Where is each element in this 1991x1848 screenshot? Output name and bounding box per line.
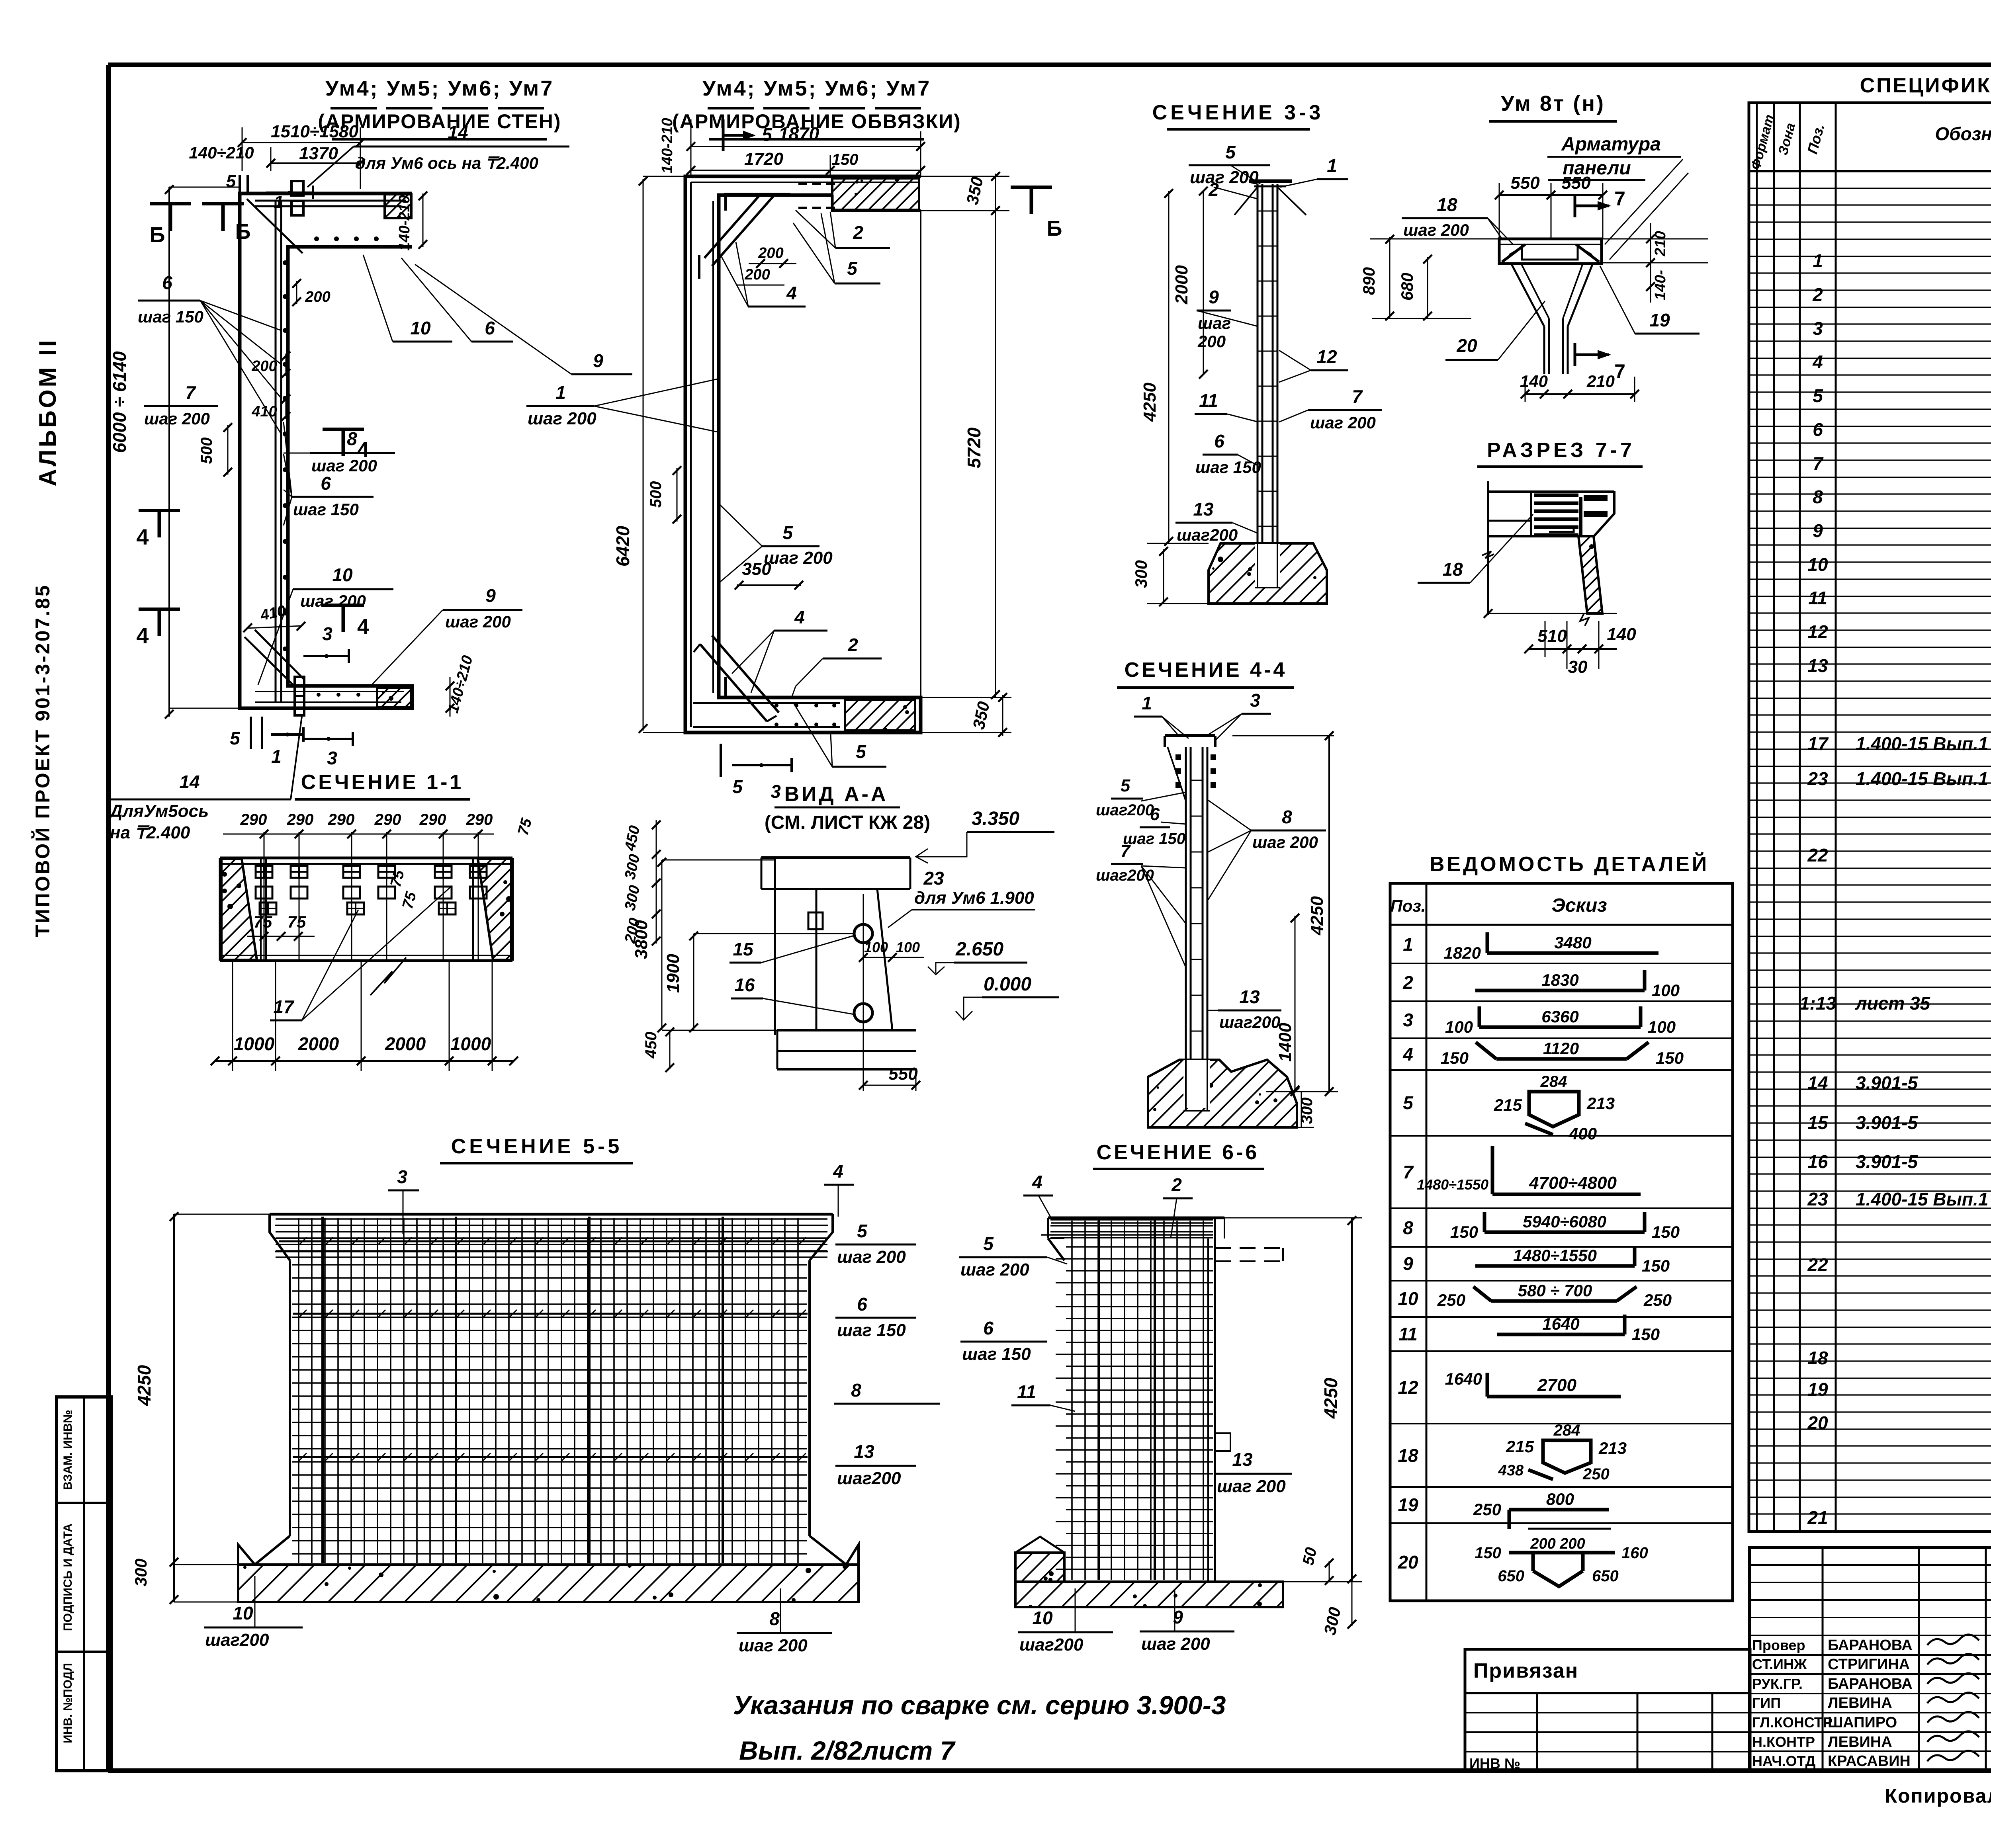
svg-text:для Ум6 ось на ₸2.400: для Ум6 ось на ₸2.400 bbox=[355, 154, 538, 172]
svg-text:6: 6 bbox=[485, 318, 495, 338]
svg-text:шаг 200: шаг 200 bbox=[1190, 168, 1259, 187]
svg-text:6: 6 bbox=[1214, 431, 1224, 451]
svg-text:150: 150 bbox=[1656, 1049, 1684, 1067]
svg-text:шаг 200: шаг 200 bbox=[739, 1636, 808, 1655]
svg-text:шаг 150: шаг 150 bbox=[962, 1344, 1031, 1364]
svg-text:7: 7 bbox=[1403, 1162, 1414, 1182]
svg-text:5: 5 bbox=[1813, 385, 1823, 406]
svg-text:9: 9 bbox=[485, 585, 496, 606]
svg-text:11: 11 bbox=[1017, 1381, 1036, 1402]
svg-text:ЛЕВИНА: ЛЕВИНА bbox=[1828, 1695, 1892, 1711]
svg-text:Ум4; Ум5; Ум6; Ум7: Ум4; Ум5; Ум6; Ум7 bbox=[325, 76, 554, 100]
svg-text:650: 650 bbox=[1498, 1567, 1524, 1585]
svg-text:шаг200: шаг200 bbox=[837, 1469, 901, 1488]
svg-text:9: 9 bbox=[1813, 520, 1823, 541]
svg-text:13: 13 bbox=[1239, 987, 1260, 1007]
svg-text:5: 5 bbox=[762, 124, 773, 145]
svg-text:13: 13 bbox=[1232, 1449, 1253, 1470]
svg-text:4250: 4250 bbox=[1140, 383, 1160, 422]
svg-text:ВЕДОМОСТЬ ДЕТАЛЕЙ: ВЕДОМОСТЬ ДЕТАЛЕЙ bbox=[1430, 852, 1709, 876]
svg-text:3: 3 bbox=[1813, 318, 1823, 339]
svg-text:450: 450 bbox=[642, 1032, 660, 1059]
svg-text:АЛЬБОМ II: АЛЬБОМ II bbox=[34, 338, 61, 486]
svg-text:140÷210: 140÷210 bbox=[189, 143, 254, 162]
svg-text:СЕЧЕНИЕ 6-6: СЕЧЕНИЕ 6-6 bbox=[1097, 1141, 1260, 1164]
svg-text:10: 10 bbox=[1398, 1288, 1418, 1309]
svg-text:ИНВ. №ПОДЛ: ИНВ. №ПОДЛ bbox=[61, 1663, 74, 1743]
svg-text:Н.КОНТР: Н.КОНТР bbox=[1752, 1734, 1815, 1750]
svg-text:290: 290 bbox=[374, 811, 401, 828]
svg-text:30: 30 bbox=[1568, 657, 1588, 677]
svg-text:100: 100 bbox=[896, 939, 920, 955]
svg-text:СТРИГИНА: СТРИГИНА bbox=[1828, 1656, 1910, 1673]
svg-text:8: 8 bbox=[1813, 486, 1823, 507]
svg-text:4: 4 bbox=[833, 1161, 843, 1182]
svg-text:3: 3 bbox=[771, 781, 781, 802]
svg-text:12: 12 bbox=[1807, 621, 1828, 642]
svg-text:140: 140 bbox=[1607, 625, 1636, 644]
svg-text:8: 8 bbox=[769, 1608, 780, 1629]
svg-text:шаг 200: шаг 200 bbox=[311, 456, 377, 475]
svg-text:18: 18 bbox=[1442, 559, 1463, 580]
svg-text:20: 20 bbox=[1807, 1412, 1828, 1433]
svg-text:150: 150 bbox=[1450, 1223, 1478, 1241]
svg-text:1510÷1580: 1510÷1580 bbox=[271, 122, 358, 141]
svg-text:15: 15 bbox=[1807, 1112, 1829, 1133]
svg-text:4: 4 bbox=[1402, 1044, 1413, 1065]
svg-text:2000: 2000 bbox=[298, 1033, 339, 1054]
svg-text:3.901-5: 3.901-5 bbox=[1856, 1072, 1918, 1093]
svg-text:ГЛ.КОНСТР: ГЛ.КОНСТР bbox=[1752, 1714, 1833, 1731]
svg-text:4700÷4800: 4700÷4800 bbox=[1529, 1173, 1617, 1193]
svg-text:шаг200: шаг200 bbox=[1219, 1013, 1280, 1031]
svg-text:75: 75 bbox=[288, 912, 306, 931]
svg-text:3480: 3480 bbox=[1554, 933, 1591, 952]
svg-text:3.901-5: 3.901-5 bbox=[1856, 1112, 1918, 1133]
svg-text:12: 12 bbox=[1398, 1377, 1418, 1398]
svg-text:СТ.ИНЖ: СТ.ИНЖ bbox=[1752, 1656, 1807, 1672]
svg-text:1:13: 1:13 bbox=[1799, 993, 1836, 1014]
svg-text:(СМ. ЛИСТ КЖ 28): (СМ. ЛИСТ КЖ 28) bbox=[765, 812, 930, 833]
svg-text:10: 10 bbox=[1807, 554, 1828, 575]
svg-text:290: 290 bbox=[419, 811, 446, 828]
svg-text:22: 22 bbox=[1807, 1254, 1828, 1275]
svg-text:100: 100 bbox=[1648, 1018, 1676, 1036]
svg-text:9: 9 bbox=[1403, 1253, 1413, 1274]
svg-text:1.400-15 Вып.1: 1.400-15 Вып.1 bbox=[1856, 1189, 1988, 1209]
svg-text:РАЗРЕЗ 7-7: РАЗРЕЗ 7-7 bbox=[1487, 439, 1635, 462]
svg-text:9: 9 bbox=[1209, 287, 1219, 307]
svg-text:8: 8 bbox=[851, 1380, 861, 1401]
svg-text:0.000: 0.000 bbox=[984, 974, 1031, 995]
svg-text:на ₸2.400: на ₸2.400 bbox=[110, 823, 190, 842]
svg-text:1: 1 bbox=[555, 382, 566, 403]
svg-text:РУК.ГР.: РУК.ГР. bbox=[1752, 1676, 1803, 1692]
svg-text:4250: 4250 bbox=[1307, 896, 1327, 936]
svg-text:шаг 200: шаг 200 bbox=[1403, 221, 1469, 239]
svg-text:ТИПОВОЙ ПРОЕКТ 901-3-207.85: ТИПОВОЙ ПРОЕКТ 901-3-207.85 bbox=[31, 584, 54, 937]
svg-text:4: 4 bbox=[136, 524, 149, 549]
svg-text:1820: 1820 bbox=[1444, 944, 1481, 962]
svg-text:7: 7 bbox=[185, 382, 196, 403]
svg-text:Б: Б bbox=[235, 220, 251, 244]
svg-text:400: 400 bbox=[1569, 1124, 1597, 1143]
svg-text:250: 250 bbox=[1437, 1291, 1465, 1309]
svg-text:350: 350 bbox=[742, 559, 771, 579]
svg-text:Указания по сварке см. сери: Указания по сварке см. серию 3.900-3 bbox=[733, 1690, 1226, 1720]
svg-text:шаг 200: шаг 200 bbox=[764, 548, 833, 568]
svg-text:284: 284 bbox=[1540, 1073, 1567, 1090]
svg-text:шаг 200: шаг 200 bbox=[1217, 1477, 1286, 1496]
svg-text:ШАПИРО: ШАПИРО bbox=[1828, 1714, 1897, 1731]
svg-text:8: 8 bbox=[1403, 1217, 1413, 1238]
svg-text:550: 550 bbox=[1510, 173, 1540, 193]
svg-text:шаг 150: шаг 150 bbox=[1195, 458, 1261, 477]
svg-text:210: 210 bbox=[1586, 372, 1615, 391]
svg-text:2: 2 bbox=[847, 635, 858, 655]
svg-text:СЕЧЕНИЕ 4-4: СЕЧЕНИЕ 4-4 bbox=[1125, 658, 1287, 682]
svg-text:22: 22 bbox=[1807, 845, 1828, 865]
svg-text:100: 100 bbox=[864, 939, 888, 955]
svg-text:215: 215 bbox=[1494, 1096, 1522, 1114]
svg-text:5: 5 bbox=[782, 522, 793, 543]
svg-text:ДляУм5ось: ДляУм5ось bbox=[108, 801, 209, 821]
svg-text:11: 11 bbox=[1808, 588, 1827, 608]
svg-text:2: 2 bbox=[1812, 284, 1823, 305]
svg-text:Провер: Провер bbox=[1752, 1637, 1805, 1653]
svg-text:150: 150 bbox=[1652, 1223, 1680, 1241]
svg-text:шаг: шаг bbox=[1198, 314, 1231, 332]
svg-text:СЕЧЕНИЕ 1-1: СЕЧЕНИЕ 1-1 bbox=[301, 771, 464, 794]
svg-text:290: 290 bbox=[287, 811, 314, 828]
svg-text:213: 213 bbox=[1586, 1094, 1615, 1113]
svg-text:510: 510 bbox=[1537, 626, 1567, 646]
svg-text:4250: 4250 bbox=[1320, 1377, 1341, 1419]
svg-text:200: 200 bbox=[744, 266, 770, 283]
svg-text:18: 18 bbox=[1398, 1445, 1418, 1466]
svg-text:18: 18 bbox=[1437, 194, 1457, 215]
svg-text:15: 15 bbox=[733, 939, 754, 959]
svg-text:ИНВ №: ИНВ № bbox=[1469, 1755, 1520, 1772]
svg-text:5: 5 bbox=[847, 258, 858, 279]
svg-text:БАРАНОВА: БАРАНОВА bbox=[1828, 1676, 1913, 1692]
svg-text:680: 680 bbox=[1398, 273, 1416, 301]
svg-text:1870: 1870 bbox=[778, 123, 819, 144]
svg-text:Поз.: Поз. bbox=[1391, 897, 1426, 915]
svg-text:140: 140 bbox=[1520, 372, 1548, 391]
svg-text:6420: 6420 bbox=[612, 525, 633, 567]
svg-text:Копировал: Коршунова: Копировал: Коршунова bbox=[1885, 1785, 1991, 1807]
svg-text:18: 18 bbox=[1807, 1348, 1828, 1368]
svg-text:5: 5 bbox=[856, 741, 866, 762]
svg-text:1720: 1720 bbox=[744, 149, 783, 169]
svg-text:шаг 150: шаг 150 bbox=[837, 1321, 906, 1340]
svg-text:150: 150 bbox=[1632, 1325, 1660, 1344]
svg-text:150: 150 bbox=[1475, 1544, 1501, 1562]
svg-text:14: 14 bbox=[448, 122, 468, 143]
svg-text:140-210: 140-210 bbox=[396, 195, 413, 250]
svg-text:3: 3 bbox=[327, 748, 337, 768]
svg-text:шаг 200: шаг 200 bbox=[960, 1260, 1029, 1280]
svg-text:250: 250 bbox=[1643, 1291, 1672, 1309]
svg-text:5: 5 bbox=[1225, 142, 1236, 162]
svg-text:13: 13 bbox=[1193, 499, 1214, 520]
svg-text:шаг 200: шаг 200 bbox=[1310, 413, 1376, 432]
svg-text:10: 10 bbox=[233, 1603, 253, 1623]
svg-text:2: 2 bbox=[1402, 972, 1413, 993]
svg-text:2700: 2700 bbox=[1537, 1375, 1576, 1395]
svg-text:20: 20 bbox=[1397, 1552, 1418, 1573]
svg-text:5: 5 bbox=[1403, 1092, 1414, 1113]
svg-text:5: 5 bbox=[857, 1221, 868, 1241]
svg-text:8: 8 bbox=[1282, 807, 1292, 827]
svg-text:шаг 150: шаг 150 bbox=[293, 500, 359, 519]
svg-text:210: 210 bbox=[1652, 231, 1669, 256]
svg-text:6: 6 bbox=[1813, 419, 1823, 440]
svg-text:1: 1 bbox=[271, 746, 282, 767]
svg-text:17: 17 bbox=[273, 996, 295, 1017]
svg-text:1.400-15 Вып.1: 1.400-15 Вып.1 bbox=[1856, 768, 1988, 789]
svg-text:160: 160 bbox=[1621, 1544, 1648, 1562]
svg-text:23: 23 bbox=[1807, 768, 1828, 789]
svg-text:140-210: 140-210 bbox=[659, 118, 676, 173]
svg-text:5: 5 bbox=[226, 172, 236, 191]
svg-text:150: 150 bbox=[1441, 1049, 1469, 1067]
svg-text:300: 300 bbox=[1132, 560, 1150, 588]
svg-text:2: 2 bbox=[1171, 1174, 1182, 1195]
svg-text:ПОДПИСЬ И ДАТА: ПОДПИСЬ И ДАТА bbox=[61, 1524, 74, 1631]
svg-text:100: 100 bbox=[1652, 981, 1680, 1000]
svg-text:4: 4 bbox=[357, 615, 369, 639]
svg-text:6: 6 bbox=[321, 473, 331, 494]
svg-text:Обозначение: Обозначение bbox=[1935, 123, 1991, 144]
svg-text:5: 5 bbox=[732, 776, 743, 797]
svg-text:3.350: 3.350 bbox=[972, 808, 1019, 829]
svg-text:1000: 1000 bbox=[234, 1033, 275, 1054]
svg-text:Привязан: Привязан bbox=[1473, 1659, 1578, 1682]
svg-text:НАЧ.ОТД: НАЧ.ОТД bbox=[1752, 1753, 1815, 1769]
svg-text:1: 1 bbox=[1142, 693, 1152, 713]
svg-text:Арматура: Арматура bbox=[1561, 134, 1661, 155]
svg-text:1.400-15 Вып.1: 1.400-15 Вып.1 bbox=[1856, 733, 1988, 754]
svg-text:8: 8 bbox=[347, 428, 357, 449]
svg-text:БАРАНОВА: БАРАНОВА bbox=[1828, 1637, 1913, 1654]
svg-text:215: 215 bbox=[1506, 1437, 1534, 1456]
svg-text:7: 7 bbox=[1614, 360, 1625, 383]
svg-text:шаг 200: шаг 200 bbox=[1252, 833, 1318, 852]
svg-text:19: 19 bbox=[1649, 310, 1670, 330]
svg-text:5: 5 bbox=[983, 1233, 994, 1254]
svg-text:17: 17 bbox=[1807, 733, 1829, 754]
svg-text:1480÷1550: 1480÷1550 bbox=[1513, 1246, 1597, 1265]
svg-text:4: 4 bbox=[1032, 1172, 1042, 1192]
svg-text:1900: 1900 bbox=[663, 954, 683, 993]
svg-text:ГИП: ГИП bbox=[1752, 1695, 1781, 1711]
svg-text:3: 3 bbox=[397, 1166, 407, 1187]
svg-text:лист 35: лист 35 bbox=[1855, 993, 1931, 1014]
svg-text:10: 10 bbox=[332, 565, 353, 585]
svg-text:6: 6 bbox=[162, 272, 172, 293]
svg-text:Эскиз: Эскиз bbox=[1551, 895, 1607, 916]
svg-text:4: 4 bbox=[786, 283, 797, 303]
svg-text:2000: 2000 bbox=[1172, 265, 1191, 305]
svg-text:Б: Б bbox=[1047, 217, 1062, 240]
svg-text:7: 7 bbox=[1813, 453, 1824, 474]
svg-text:1830: 1830 bbox=[1541, 971, 1578, 989]
svg-text:100: 100 bbox=[1445, 1018, 1473, 1036]
svg-text:11: 11 bbox=[1398, 1324, 1418, 1344]
svg-text:1: 1 bbox=[1403, 934, 1413, 955]
svg-text:6: 6 bbox=[1150, 805, 1160, 824]
svg-text:2: 2 bbox=[1208, 179, 1219, 200]
svg-text:14: 14 bbox=[179, 772, 199, 792]
svg-text:для Ум6 1.900: для Ум6 1.900 bbox=[914, 888, 1034, 908]
svg-text:1120: 1120 bbox=[1543, 1039, 1579, 1058]
svg-text:Ум4; Ум5; Ум6; Ум7: Ум4; Ум5; Ум6; Ум7 bbox=[702, 76, 931, 100]
svg-text:6000 ÷ 6140: 6000 ÷ 6140 bbox=[109, 351, 130, 453]
svg-text:шаг 150: шаг 150 bbox=[1123, 830, 1185, 848]
svg-text:3: 3 bbox=[1403, 1010, 1413, 1030]
svg-text:4: 4 bbox=[1812, 352, 1823, 372]
svg-text:1: 1 bbox=[274, 192, 284, 212]
svg-text:290: 290 bbox=[240, 811, 267, 828]
svg-text:284: 284 bbox=[1553, 1422, 1580, 1439]
svg-text:19: 19 bbox=[1398, 1494, 1418, 1515]
svg-text:4: 4 bbox=[794, 607, 805, 627]
svg-text:шаг 200: шаг 200 bbox=[528, 409, 597, 428]
svg-text:7: 7 bbox=[1352, 386, 1363, 407]
svg-text:шаг 200: шаг 200 bbox=[445, 612, 511, 631]
svg-text:5940÷6080: 5940÷6080 bbox=[1523, 1212, 1606, 1231]
svg-text:1000: 1000 bbox=[450, 1033, 491, 1054]
svg-text:шаг 200: шаг 200 bbox=[1141, 1634, 1210, 1654]
svg-text:2000: 2000 bbox=[385, 1033, 426, 1054]
svg-text:7: 7 bbox=[1121, 841, 1131, 861]
svg-text:23: 23 bbox=[1807, 1189, 1828, 1209]
svg-text:ВИД А-А: ВИД А-А bbox=[784, 783, 888, 806]
svg-text:200: 200 bbox=[1197, 332, 1226, 351]
svg-text:550: 550 bbox=[1561, 173, 1591, 193]
svg-text:6360: 6360 bbox=[1541, 1007, 1578, 1026]
svg-text:3.901-5: 3.901-5 bbox=[1856, 1151, 1918, 1172]
svg-text:шаг 200: шаг 200 bbox=[300, 592, 366, 610]
svg-text:13: 13 bbox=[1807, 655, 1828, 676]
svg-text:12: 12 bbox=[1316, 346, 1337, 367]
svg-text:Ум 8т (н): Ум 8т (н) bbox=[1501, 92, 1605, 115]
svg-text:1640: 1640 bbox=[1445, 1369, 1482, 1388]
svg-text:Б: Б bbox=[150, 223, 165, 247]
svg-text:4: 4 bbox=[136, 623, 149, 648]
svg-text:2: 2 bbox=[853, 222, 863, 243]
svg-text:200: 200 bbox=[305, 289, 330, 305]
svg-text:7: 7 bbox=[1614, 188, 1625, 210]
svg-text:21: 21 bbox=[1807, 1507, 1828, 1528]
svg-text:300: 300 bbox=[131, 1559, 150, 1586]
svg-text:290: 290 bbox=[466, 811, 493, 828]
svg-text:шаг200: шаг200 bbox=[1019, 1635, 1084, 1655]
svg-text:1: 1 bbox=[1327, 155, 1337, 176]
svg-text:1480÷1550: 1480÷1550 bbox=[1417, 1176, 1488, 1193]
svg-text:шаг 200: шаг 200 bbox=[837, 1247, 906, 1267]
svg-text:1: 1 bbox=[1813, 250, 1823, 271]
svg-text:СЕЧЕНИЕ 3-3: СЕЧЕНИЕ 3-3 bbox=[1152, 101, 1324, 124]
svg-text:13: 13 bbox=[854, 1441, 874, 1462]
svg-text:СЕЧЕНИЕ 5-5: СЕЧЕНИЕ 5-5 bbox=[451, 1135, 623, 1158]
svg-text:650: 650 bbox=[1592, 1567, 1619, 1585]
svg-text:11: 11 bbox=[1199, 390, 1218, 411]
svg-text:23: 23 bbox=[923, 868, 944, 889]
svg-text:14: 14 bbox=[1807, 1072, 1828, 1093]
svg-text:шаг200: шаг200 bbox=[205, 1630, 269, 1650]
svg-text:500: 500 bbox=[647, 481, 665, 508]
svg-text:250: 250 bbox=[1473, 1500, 1501, 1519]
svg-text:10: 10 bbox=[410, 318, 431, 338]
svg-text:1370: 1370 bbox=[299, 144, 338, 163]
svg-text:6: 6 bbox=[857, 1294, 867, 1315]
svg-text:200: 200 bbox=[251, 358, 277, 375]
svg-text:75: 75 bbox=[254, 912, 272, 931]
svg-text:СПЕЦИФИКАЦИЯ МОНОЛИТНЫХ УЧАСТК: СПЕЦИФИКАЦИЯ МОНОЛИТНЫХ УЧАСТКОВ Ум4÷Ум8… bbox=[1860, 74, 1991, 97]
svg-text:150: 150 bbox=[832, 151, 859, 168]
svg-text:4250: 4250 bbox=[134, 1365, 155, 1406]
svg-text:3: 3 bbox=[322, 623, 332, 644]
svg-text:890: 890 bbox=[1359, 267, 1378, 295]
svg-text:3800: 3800 bbox=[632, 920, 651, 959]
svg-text:шаг 200: шаг 200 bbox=[144, 409, 210, 428]
svg-text:50: 50 bbox=[1299, 1546, 1320, 1567]
svg-text:5: 5 bbox=[230, 728, 241, 748]
svg-text:140-: 140- bbox=[1652, 270, 1669, 300]
svg-text:16: 16 bbox=[1807, 1151, 1828, 1172]
svg-text:550: 550 bbox=[888, 1064, 918, 1084]
svg-text:290: 290 bbox=[328, 811, 355, 828]
svg-text:410: 410 bbox=[251, 403, 277, 420]
svg-text:200: 200 bbox=[758, 245, 783, 262]
svg-text:250: 250 bbox=[1582, 1465, 1610, 1483]
svg-text:ВЗАМ. ИНВ№: ВЗАМ. ИНВ№ bbox=[61, 1410, 74, 1490]
svg-text:2.650: 2.650 bbox=[955, 939, 1003, 960]
svg-text:500: 500 bbox=[198, 438, 215, 464]
svg-text:800: 800 bbox=[1546, 1490, 1574, 1508]
svg-text:6: 6 bbox=[983, 1318, 994, 1338]
svg-text:шаг200: шаг200 bbox=[1177, 525, 1238, 544]
svg-text:шаг200: шаг200 bbox=[1096, 801, 1154, 819]
svg-text:16: 16 bbox=[734, 975, 755, 995]
svg-text:20: 20 bbox=[1456, 335, 1477, 356]
svg-text:3: 3 bbox=[1250, 690, 1260, 711]
svg-text:9: 9 bbox=[593, 350, 603, 371]
svg-text:438: 438 bbox=[1498, 1462, 1524, 1479]
svg-text:шаг 150: шаг 150 bbox=[138, 307, 203, 326]
svg-text:150: 150 bbox=[1642, 1256, 1670, 1275]
svg-text:580 ÷ 700: 580 ÷ 700 bbox=[1518, 1281, 1592, 1300]
svg-text:200 200: 200 200 bbox=[1530, 1535, 1585, 1552]
svg-text:5: 5 bbox=[1121, 776, 1130, 795]
svg-text:10: 10 bbox=[1032, 1608, 1053, 1628]
svg-text:19: 19 bbox=[1807, 1379, 1828, 1400]
svg-text:Вып. 2/82лист 7: Вып. 2/82лист 7 bbox=[739, 1736, 956, 1765]
svg-text:213: 213 bbox=[1598, 1439, 1627, 1457]
svg-text:5720: 5720 bbox=[964, 427, 984, 468]
svg-text:1640: 1640 bbox=[1542, 1315, 1579, 1333]
svg-text:КРАСАВИН: КРАСАВИН bbox=[1828, 1753, 1911, 1770]
svg-text:ЛЕВИНА: ЛЕВИНА bbox=[1828, 1734, 1892, 1750]
